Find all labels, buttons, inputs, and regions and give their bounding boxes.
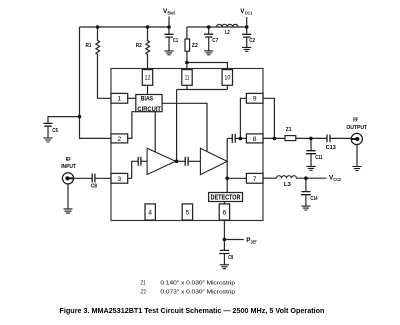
svg-text:11: 11: [185, 74, 190, 81]
svg-text:C9: C9: [228, 255, 233, 261]
svg-text:R1: R1: [86, 43, 93, 49]
svg-text:5: 5: [186, 210, 190, 217]
svg-text:RF: RF: [353, 117, 358, 123]
svg-text:1: 1: [117, 95, 121, 102]
svg-text:INPUT: INPUT: [61, 164, 76, 170]
svg-text:Z1: Z1: [286, 127, 292, 133]
svg-text:C14: C14: [310, 196, 318, 202]
svg-text:Z1: Z1: [141, 280, 147, 286]
svg-text:RF: RF: [66, 157, 71, 163]
svg-text:4: 4: [148, 210, 152, 217]
svg-text:6: 6: [223, 210, 227, 217]
svg-text:BIAS: BIAS: [168, 10, 176, 15]
svg-text:8: 8: [253, 136, 257, 143]
svg-text:9: 9: [253, 95, 257, 102]
svg-text:12: 12: [145, 74, 151, 81]
svg-text:OUTPUT: OUTPUT: [346, 125, 367, 131]
svg-text:CC1: CC1: [245, 10, 253, 15]
svg-text:Figure 3. MMA25312BT1 Test Cir: Figure 3. MMA25312BT1 Test Circuit Schem…: [60, 306, 325, 315]
svg-text:7: 7: [253, 176, 257, 183]
svg-text:3: 3: [117, 176, 121, 183]
svg-text:0.140″ x 0.030″ Microstrip: 0.140″ x 0.030″ Microstrip: [160, 280, 235, 286]
svg-text:C8: C8: [91, 184, 97, 190]
svg-text:0.073″ x 0.030″ Microstrip: 0.073″ x 0.030″ Microstrip: [160, 290, 235, 296]
svg-text:DET: DET: [251, 239, 257, 244]
svg-text:DETECTOR: DETECTOR: [211, 193, 242, 202]
svg-text:10: 10: [224, 74, 230, 81]
svg-text:2: 2: [117, 136, 121, 143]
svg-text:L2: L2: [225, 30, 230, 36]
svg-text:C2: C2: [249, 38, 255, 44]
svg-text:C11: C11: [315, 155, 323, 161]
svg-text:C1: C1: [173, 38, 179, 44]
svg-text:Z2: Z2: [141, 290, 147, 296]
svg-text:R2: R2: [136, 43, 143, 49]
svg-text:Z2: Z2: [192, 43, 199, 49]
svg-text:L3: L3: [284, 182, 292, 188]
svg-text:C13: C13: [326, 145, 337, 151]
svg-text:C7: C7: [212, 38, 218, 44]
svg-text:BIAS: BIAS: [141, 96, 153, 103]
svg-text:CC2: CC2: [333, 177, 341, 182]
svg-text:CIRCUIT: CIRCUIT: [137, 106, 161, 113]
svg-text:C5: C5: [52, 128, 58, 134]
